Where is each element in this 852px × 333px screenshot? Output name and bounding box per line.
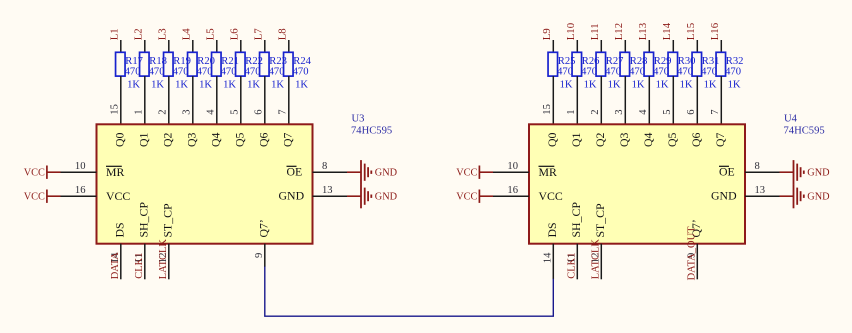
wire L14 to R30 [672, 40, 674, 52]
svg-text:15: 15 [109, 104, 120, 115]
pin 12 wire (ST_CP) [168, 244, 170, 280]
svg-text:470: 470 [725, 66, 741, 77]
svg-text:470: 470 [221, 66, 237, 77]
wire R31 to U4 pin Q6 [696, 76, 698, 124]
svg-text:L12: L12 [613, 23, 625, 40]
svg-text:13: 13 [322, 185, 333, 196]
svg-text:2: 2 [590, 109, 601, 114]
wire R18 to U3 pin Q1 [144, 76, 146, 124]
svg-text:Q3: Q3 [185, 132, 199, 147]
svg-text:Q1: Q1 [569, 132, 583, 147]
wire R25 to U4 pin Q0 [552, 76, 554, 124]
svg-text:VCC: VCC [456, 167, 477, 178]
svg-text:470: 470 [677, 66, 693, 77]
power port VCC to U3 VCC [24, 190, 61, 203]
svg-text:R17: R17 [125, 56, 143, 67]
svg-text:R23: R23 [269, 56, 287, 67]
svg-text:L1: L1 [109, 28, 121, 40]
pin 14 wire (DS) [552, 244, 554, 280]
svg-text:MR: MR [106, 165, 124, 179]
wire R22 to U3 pin Q5 [240, 76, 242, 124]
svg-text:4: 4 [205, 109, 216, 115]
resistor R23 body [260, 52, 270, 76]
svg-text:1K: 1K [295, 80, 308, 91]
value label R26 470 1K [581, 56, 599, 91]
svg-text:GND: GND [375, 168, 398, 179]
svg-text:R21: R21 [221, 56, 239, 67]
svg-text:Q4: Q4 [641, 132, 655, 147]
svg-text:Q3: Q3 [617, 132, 631, 147]
svg-text:470: 470 [701, 66, 717, 77]
svg-text:Q7’: Q7’ [257, 219, 271, 237]
svg-text:74HC595: 74HC595 [784, 125, 825, 136]
svg-text:Q6: Q6 [257, 132, 271, 147]
svg-text:1K: 1K [704, 80, 717, 91]
svg-text:SH_CP: SH_CP [137, 202, 151, 238]
wire R21 to U3 pin Q4 [216, 76, 218, 124]
svg-text:1K: 1K [560, 80, 573, 91]
resistor R32 body [716, 52, 726, 76]
pin 11 wire (SH_CP) [144, 244, 146, 280]
svg-text:10: 10 [507, 161, 518, 172]
value label R24 470 1K [293, 56, 312, 91]
wire L9 to R25 [552, 40, 554, 52]
wire R26 to U4 pin Q1 [576, 76, 578, 124]
svg-text:L3: L3 [157, 28, 169, 40]
svg-text:1K: 1K [271, 80, 284, 91]
svg-text:470: 470 [269, 66, 285, 77]
svg-text:5: 5 [229, 109, 240, 114]
svg-text:470: 470 [245, 66, 261, 77]
svg-text:L16: L16 [709, 22, 721, 40]
value label R18 470 1K [149, 56, 167, 91]
wire VCC to pin 10 (MR) [61, 171, 97, 173]
resistor R26 body [572, 52, 582, 76]
svg-text:6: 6 [253, 109, 264, 114]
svg-text:5: 5 [662, 109, 673, 114]
power port VCC to U4 MR [456, 166, 493, 179]
svg-text:470: 470 [581, 66, 597, 77]
wire L12 to R28 [624, 40, 626, 52]
resistor R22 body [236, 52, 246, 76]
resistor R30 body [668, 52, 678, 76]
svg-text:470: 470 [149, 66, 165, 77]
svg-text:3: 3 [181, 109, 192, 114]
svg-text:1K: 1K [728, 80, 741, 91]
svg-text:GND: GND [711, 189, 737, 203]
svg-text:VCC: VCC [539, 189, 563, 203]
svg-text:MR: MR [539, 165, 557, 179]
wire L1 to R17 [120, 40, 122, 52]
svg-text:L5: L5 [205, 28, 217, 40]
svg-text:L13: L13 [637, 23, 649, 40]
svg-text:2: 2 [157, 109, 168, 114]
svg-text:14: 14 [542, 252, 553, 263]
svg-text:DS: DS [545, 222, 559, 237]
svg-text:ST_CP: ST_CP [161, 203, 175, 238]
value label R23 470 1K [269, 56, 287, 91]
wire L2 to R18 [144, 40, 146, 52]
svg-text:OE: OE [719, 165, 735, 179]
value label R31 470 1K [701, 56, 719, 91]
svg-text:VCC: VCC [456, 191, 477, 202]
svg-text:GND: GND [807, 168, 830, 179]
svg-text:1K: 1K [151, 80, 164, 91]
wire L7 to R23 [264, 40, 266, 52]
pin 9 wire (Q7') [264, 244, 266, 267]
svg-text:LATCLK: LATCLK [158, 239, 169, 280]
svg-text:8: 8 [322, 161, 327, 172]
svg-text:OE: OE [287, 165, 303, 179]
svg-text:L15: L15 [685, 23, 697, 40]
svg-text:L9: L9 [541, 28, 553, 40]
svg-text:15: 15 [542, 104, 553, 115]
svg-text:1K: 1K [608, 80, 621, 91]
svg-text:4: 4 [638, 109, 649, 115]
wire R23 to U3 pin Q6 [264, 76, 266, 124]
wire VCC to pin 16 (VCC) [61, 195, 97, 197]
power port VCC to U3 MR [24, 166, 61, 179]
value label R32 470 1K [725, 56, 743, 91]
svg-text:VCC: VCC [106, 189, 130, 203]
wire L15 to R31 [696, 40, 698, 52]
svg-text:6: 6 [686, 109, 697, 114]
wire L4 to R20 [192, 40, 194, 52]
svg-text:16: 16 [507, 185, 518, 196]
power port GND at U4 GND [780, 184, 831, 208]
svg-text:9: 9 [254, 253, 265, 258]
resistor R19 body [164, 52, 174, 76]
svg-text:L4: L4 [181, 28, 193, 41]
svg-text:470: 470 [557, 66, 573, 77]
value label R28 470 1K [629, 56, 647, 91]
svg-text:1K: 1K [175, 80, 188, 91]
svg-text:470: 470 [173, 66, 189, 77]
svg-text:10: 10 [75, 161, 86, 172]
svg-text:Q2: Q2 [161, 132, 175, 147]
resistor R24 body [284, 52, 294, 76]
value label R17 470 1K [125, 56, 143, 91]
svg-text:Q0: Q0 [113, 132, 127, 147]
pin name MR with overline [539, 165, 557, 179]
svg-text:Q5: Q5 [665, 132, 679, 147]
svg-text:R26: R26 [582, 56, 600, 67]
svg-text:ST_CP: ST_CP [593, 203, 607, 238]
svg-text:R19: R19 [173, 56, 191, 67]
wire R24 to U3 pin Q7 [288, 76, 290, 124]
wire L13 to R29 [648, 40, 650, 52]
svg-text:470: 470 [629, 66, 645, 77]
value label R25 470 1K [557, 56, 575, 91]
svg-text:R22: R22 [245, 56, 263, 67]
svg-text:R27: R27 [606, 56, 624, 67]
svg-text:L8: L8 [277, 28, 289, 40]
svg-text:1K: 1K [127, 80, 140, 91]
wire L3 to R19 [168, 40, 170, 52]
svg-text:GND: GND [807, 192, 830, 203]
svg-text:13: 13 [755, 185, 766, 196]
svg-text:1K: 1K [199, 80, 212, 91]
wire L10 to R26 [576, 40, 578, 52]
svg-text:L6: L6 [229, 28, 241, 41]
wire L5 to R21 [216, 40, 218, 52]
svg-text:Q0: Q0 [545, 132, 559, 147]
value label R21 470 1K [221, 56, 239, 91]
wire R30 to U4 pin Q5 [672, 76, 674, 124]
svg-text:R28: R28 [630, 56, 648, 67]
svg-text:Q5: Q5 [233, 132, 247, 147]
pin 11 wire (SH_CP) [576, 244, 578, 280]
svg-text:8: 8 [755, 161, 760, 172]
svg-text:R25: R25 [558, 56, 576, 67]
pin 9 wire (Q7') [696, 244, 698, 280]
resistor R29 body [644, 52, 654, 76]
svg-text:7: 7 [277, 109, 288, 114]
svg-text:R18: R18 [149, 56, 167, 67]
svg-text:1K: 1K [680, 80, 693, 91]
svg-text:VCC: VCC [24, 167, 45, 178]
svg-text:470: 470 [197, 66, 213, 77]
value label R19 470 1K [173, 56, 191, 91]
power port GND at U4 OE [780, 160, 831, 184]
svg-text:Q4: Q4 [209, 132, 223, 147]
IC U3 74HC595 body [97, 124, 313, 243]
wire L11 to R27 [600, 40, 602, 52]
pin 12 wire (ST_CP) [600, 244, 602, 280]
svg-text:1: 1 [133, 109, 144, 114]
wire VCC to pin 16 (VCC) [493, 195, 529, 197]
pin name MR with overline [106, 165, 124, 179]
svg-text:CLK1: CLK1 [134, 253, 145, 279]
wire L6 to R22 [240, 40, 242, 52]
svg-text:1K: 1K [223, 80, 236, 91]
svg-text:Q7: Q7 [713, 132, 727, 147]
svg-text:470: 470 [125, 66, 141, 77]
resistor R20 body [188, 52, 198, 76]
svg-text:Q7: Q7 [281, 132, 295, 147]
svg-text:470: 470 [653, 66, 669, 77]
value label R29 470 1K [653, 56, 671, 91]
wire R17 to U3 pin Q0 [120, 76, 122, 124]
power port GND at U3 OE [347, 160, 398, 184]
wire R27 to U4 pin Q2 [600, 76, 602, 124]
svg-text:1K: 1K [584, 80, 597, 91]
svg-text:LATCLK: LATCLK [590, 239, 601, 280]
wire pin 8 (OE) to GND [313, 171, 348, 173]
svg-text:470: 470 [293, 66, 309, 77]
svg-text:Q2: Q2 [593, 132, 607, 147]
resistor R27 body [596, 52, 606, 76]
svg-text:1K: 1K [656, 80, 669, 91]
value label R22 470 1K [245, 56, 263, 91]
wire VCC to pin 10 (MR) [493, 171, 529, 173]
svg-text:R20: R20 [197, 56, 215, 67]
svg-text:1K: 1K [247, 80, 260, 91]
svg-text:L7: L7 [253, 28, 265, 41]
wire L8 to R24 [288, 40, 290, 52]
svg-text:16: 16 [75, 185, 86, 196]
wire R19 to U3 pin Q2 [168, 76, 170, 124]
svg-text:L10: L10 [565, 23, 577, 40]
svg-text:R29: R29 [654, 56, 672, 67]
wire R29 to U4 pin Q4 [648, 76, 650, 124]
IC U4 74HC595 body [529, 124, 745, 243]
svg-text:L11: L11 [589, 23, 601, 40]
resistor R28 body [620, 52, 630, 76]
svg-text:1: 1 [566, 109, 577, 114]
wire R28 to U4 pin Q3 [624, 76, 626, 124]
svg-text:GND: GND [375, 192, 398, 203]
resistor R21 body [212, 52, 222, 76]
wire pin 8 (OE) to GND [745, 171, 780, 173]
svg-text:U4: U4 [784, 114, 798, 125]
svg-text:7: 7 [710, 109, 721, 114]
svg-text:R32: R32 [726, 56, 744, 67]
svg-text:74HC595: 74HC595 [351, 125, 392, 136]
resistor R18 body [140, 52, 150, 76]
svg-text:1K: 1K [632, 80, 645, 91]
pin name OE with overline [719, 165, 735, 179]
wire pin 13 (GND) to GND [313, 195, 348, 197]
svg-text:DATA: DATA [110, 252, 121, 280]
svg-text:3: 3 [614, 109, 625, 114]
svg-text:U3: U3 [352, 114, 365, 125]
resistor R31 body [692, 52, 702, 76]
svg-text:DS: DS [113, 222, 127, 237]
power port GND at U3 GND [347, 184, 398, 208]
svg-text:SH_CP: SH_CP [569, 202, 583, 238]
pin name OE with overline [287, 165, 303, 179]
wire U3 Q7' to U4 DS (serial data link) [265, 267, 554, 317]
svg-text:L2: L2 [133, 28, 145, 40]
pin 14 wire (DS) [120, 244, 122, 280]
svg-text:L14: L14 [661, 22, 673, 40]
wire R20 to U3 pin Q3 [192, 76, 194, 124]
wire pin 13 (GND) to GND [745, 195, 780, 197]
value label R30 470 1K [677, 56, 695, 91]
value label R27 470 1K [605, 56, 623, 91]
resistor R17 body [116, 52, 126, 76]
svg-text:CLK1: CLK1 [566, 253, 577, 279]
svg-text:VCC: VCC [24, 191, 45, 202]
svg-text:GND: GND [279, 189, 305, 203]
resistor R25 body [548, 52, 558, 76]
svg-text:Q6: Q6 [689, 132, 703, 147]
svg-text:Q1: Q1 [137, 132, 151, 147]
svg-text:DATA_OUT: DATA_OUT [686, 226, 697, 281]
svg-text:R31: R31 [702, 56, 720, 67]
svg-text:R24: R24 [293, 56, 311, 67]
power port VCC to U4 VCC [456, 190, 493, 203]
wire R32 to U4 pin Q7 [720, 76, 722, 124]
value label R20 470 1K [197, 56, 215, 91]
wire L16 to R32 [720, 40, 722, 52]
svg-text:470: 470 [605, 66, 621, 77]
svg-text:R30: R30 [678, 56, 696, 67]
